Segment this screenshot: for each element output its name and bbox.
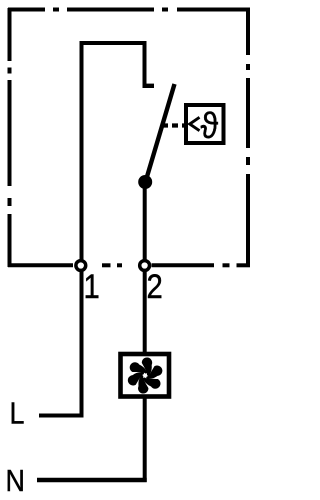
svg-text:N: N (6, 464, 25, 498)
wire: pivot down through terminal 2 to fan (143, 182, 147, 353)
enclosure boundary: bottom dash-dot edge with terminal gaps (8, 263, 250, 267)
wire: L feed horizontal (39, 414, 84, 418)
enclosure boundary: top dash-dot edge (8, 8, 250, 12)
thermostat label: less-than sign (190, 117, 200, 130)
switch pivot junction dot (138, 175, 152, 189)
wire: fan down to N corner (143, 396, 147, 482)
enclosure boundary: left dash-dot edge (8, 8, 12, 267)
control link: dotted line from blade to thermostat (162, 123, 184, 127)
wire: vertical from L corner through terminal 1 to top bar (80, 41, 84, 418)
svg-text:2: 2 (147, 267, 163, 306)
switch blade (thermostat contact, open) (146, 84, 175, 180)
svg-text:1: 1 (84, 267, 100, 306)
fan box (ventilator M) (121, 354, 170, 397)
thermostat sensor box (186, 105, 224, 143)
terminal 1 (circle) (76, 261, 86, 271)
terminal 2 (circle) (140, 261, 150, 271)
fan impeller symbol (124, 355, 166, 396)
enclosure boundary: right dash-dot edge (246, 8, 250, 267)
switch fixed contact stub (143, 84, 155, 88)
wire: N feed horizontal (37, 478, 147, 483)
svg-text:ϑ: ϑ (201, 106, 219, 146)
wire: top horizontal bar (80, 41, 147, 45)
wire: drop from top bar to switch fixed contact (143, 41, 147, 86)
svg-text:L: L (10, 397, 25, 431)
